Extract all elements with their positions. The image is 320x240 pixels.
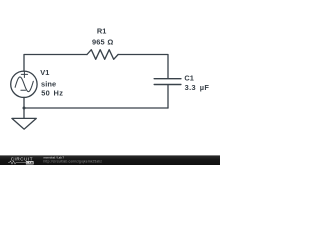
resistor R1 bbox=[87, 50, 118, 60]
V1 sine glyph bbox=[15, 77, 33, 92]
svg-text:V1: V1 bbox=[40, 68, 49, 77]
wire bottom segment bbox=[24, 107, 168, 109]
V1 plus sign bbox=[21, 71, 27, 77]
ground bbox=[12, 118, 36, 129]
svg-text:sine: sine bbox=[41, 80, 56, 89]
svg-text:R1: R1 bbox=[97, 27, 106, 36]
watermark bar bbox=[0, 155, 220, 165]
voltage source V1 bbox=[11, 71, 37, 97]
svg-text:C1: C1 bbox=[184, 73, 193, 82]
svg-text:LAB: LAB bbox=[27, 161, 34, 165]
V1 minus sign bbox=[21, 89, 26, 91]
svg-text:http://circuitlab.com/c/jpqkem: http://circuitlab.com/c/jpqkemk25abz bbox=[44, 159, 103, 163]
svg-text:965 Ω: 965 Ω bbox=[92, 38, 113, 47]
node junction dot bbox=[23, 107, 26, 110]
wire right vertical lower bbox=[167, 85, 169, 108]
svg-text:3.3 µF: 3.3 µF bbox=[185, 83, 210, 92]
CircuitLab logo bbox=[8, 156, 34, 165]
ground stub wire bbox=[23, 108, 25, 118]
wire top left segment bbox=[24, 55, 87, 72]
wire top right segment bbox=[118, 55, 168, 79]
capacitor C1 bbox=[154, 79, 181, 85]
svg-text:50 Hz: 50 Hz bbox=[41, 89, 63, 98]
wire source bottom bbox=[23, 97, 25, 108]
